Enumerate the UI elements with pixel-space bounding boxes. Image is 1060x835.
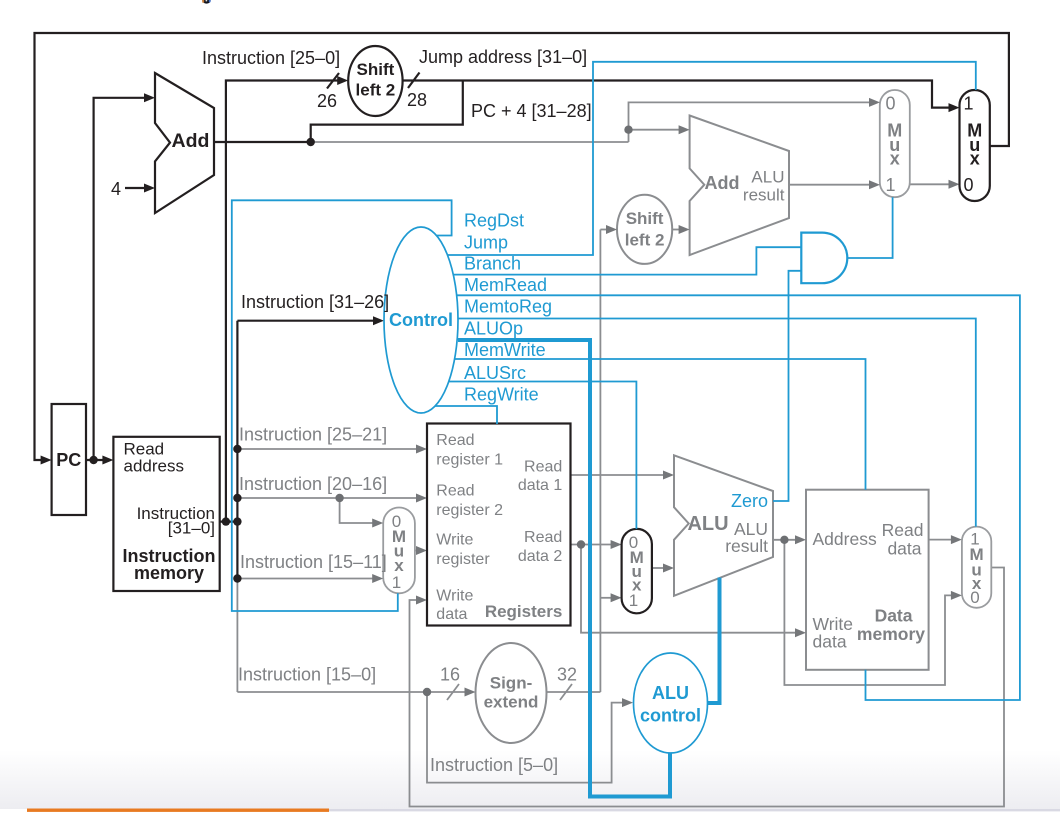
svg-text:Registers: Registers <box>485 602 562 621</box>
svg-text:Shift: Shift <box>626 209 664 228</box>
svg-text:Shift: Shift <box>357 60 395 79</box>
svg-text:data: data <box>813 632 847 652</box>
svg-text:0: 0 <box>970 588 979 607</box>
svg-text:0: 0 <box>963 175 973 195</box>
svg-text:register 1: register 1 <box>436 452 503 469</box>
svg-text:1: 1 <box>885 175 895 195</box>
svg-text:[31–0]: [31–0] <box>168 519 215 538</box>
svg-text:memory: memory <box>134 563 204 583</box>
svg-text:28: 28 <box>407 90 427 110</box>
svg-text:Jump: Jump <box>464 233 508 253</box>
svg-text:Add: Add <box>705 173 740 193</box>
svg-text:Read: Read <box>882 520 924 540</box>
svg-text:Sign-: Sign- <box>490 674 533 693</box>
svg-text:x: x <box>970 149 980 169</box>
svg-text:MemWrite: MemWrite <box>464 340 546 360</box>
svg-text:address: address <box>124 457 184 476</box>
svg-text:left 2: left 2 <box>625 231 665 250</box>
svg-text:Instruction [31–26]: Instruction [31–26] <box>241 292 389 312</box>
svg-text:MemtoReg: MemtoReg <box>464 297 552 317</box>
svg-text:1: 1 <box>392 573 401 592</box>
svg-text:Write: Write <box>436 588 473 605</box>
svg-text:ALU: ALU <box>652 683 689 703</box>
svg-text:register: register <box>436 551 490 568</box>
svg-text:Read: Read <box>436 432 474 449</box>
svg-text:26: 26 <box>317 91 337 111</box>
svg-text:Branch: Branch <box>464 254 521 274</box>
svg-text:Read: Read <box>524 529 562 546</box>
svg-text:PC + 4 [31–28]: PC + 4 [31–28] <box>471 101 592 121</box>
svg-text:Address: Address <box>813 529 877 549</box>
svg-text:RegWrite: RegWrite <box>464 385 539 405</box>
svg-text:ALU: ALU <box>751 168 784 187</box>
svg-text:control: control <box>640 706 701 726</box>
svg-text:Add: Add <box>172 130 210 152</box>
svg-text:data: data <box>436 606 467 623</box>
svg-text:result: result <box>725 536 768 556</box>
svg-text:data 1: data 1 <box>518 477 563 494</box>
svg-text:MemRead: MemRead <box>464 275 547 295</box>
svg-text:extend: extend <box>484 693 539 712</box>
svg-text:32: 32 <box>557 665 577 685</box>
svg-text:ALUSrc: ALUSrc <box>464 363 526 383</box>
svg-text:Jump address [31–0]: Jump address [31–0] <box>419 47 587 67</box>
svg-text:result: result <box>743 186 785 205</box>
svg-text:PC: PC <box>56 450 81 470</box>
svg-text:1: 1 <box>629 591 638 610</box>
svg-text:x: x <box>890 149 900 169</box>
svg-text:Control: Control <box>389 310 453 330</box>
svg-text:Zero: Zero <box>731 491 768 511</box>
svg-text:left 2: left 2 <box>356 81 396 100</box>
svg-text:Instruction [15–0]: Instruction [15–0] <box>238 665 376 685</box>
svg-text:Instruction [25–21]: Instruction [25–21] <box>239 425 387 445</box>
svg-text:Read: Read <box>524 459 562 476</box>
svg-text:ALU: ALU <box>687 513 728 535</box>
svg-text:Instruction [25–0]: Instruction [25–0] <box>202 48 340 68</box>
svg-text:memory: memory <box>857 624 925 644</box>
svg-text:RegDst: RegDst <box>464 211 524 231</box>
svg-text:ALUOp: ALUOp <box>464 319 523 339</box>
svg-text:4: 4 <box>111 179 121 199</box>
svg-text:Instruction [20–16]: Instruction [20–16] <box>239 474 387 494</box>
svg-text:register 2: register 2 <box>436 502 503 519</box>
svg-text:0: 0 <box>885 94 895 114</box>
svg-text:16: 16 <box>440 665 460 685</box>
svg-text:data: data <box>887 539 921 559</box>
svg-text:Instruction [5–0]: Instruction [5–0] <box>430 755 558 775</box>
svg-text:Write: Write <box>436 532 473 549</box>
svg-text:Instruction [15–11]: Instruction [15–11] <box>240 552 387 572</box>
svg-text:1: 1 <box>963 94 973 114</box>
svg-text:data 2: data 2 <box>518 548 563 565</box>
svg-text:Read: Read <box>436 483 474 500</box>
svg-text:Data: Data <box>875 606 913 626</box>
